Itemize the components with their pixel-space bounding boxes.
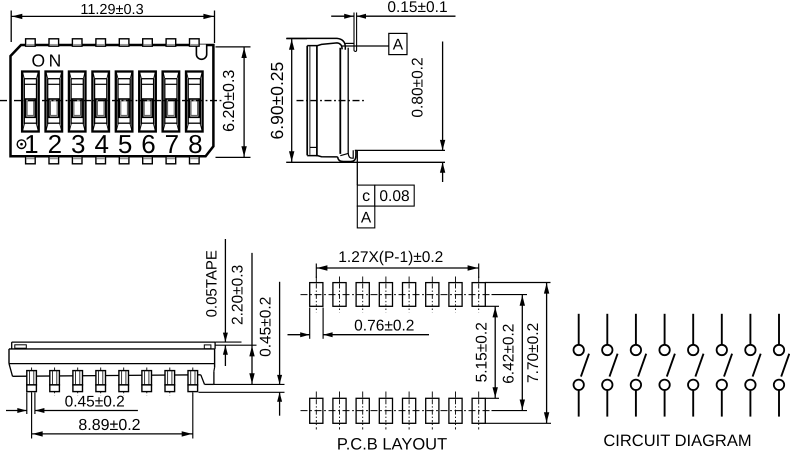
PCB pad top 2 bbox=[333, 277, 346, 313]
svg-text:0.08: 0.08 bbox=[379, 188, 409, 205]
svg-text:2.20±0.3: 2.20±0.3 bbox=[229, 265, 246, 325]
PCB pad top 7 bbox=[449, 277, 462, 313]
gull-wing lead 2 bbox=[50, 368, 60, 396]
terminal tab top 5 bbox=[119, 39, 129, 46]
gull-wing lead 6 bbox=[142, 368, 152, 396]
PCB pad bottom 4 bbox=[379, 392, 392, 430]
circuit switch S7 bbox=[745, 314, 761, 417]
svg-text:6: 6 bbox=[141, 129, 155, 159]
centerline (side view) bbox=[297, 100, 365, 102]
PCB pad bottom 7 bbox=[449, 392, 462, 430]
circuit switch S1 bbox=[574, 314, 590, 417]
dimension 0.45±0.2 (stand-off) bbox=[258, 282, 283, 416]
svg-text:2: 2 bbox=[48, 129, 62, 159]
switch slider 2 (top view) bbox=[46, 72, 63, 132]
lead seating lines bbox=[355, 149, 445, 151]
switch slider 7 (top view) bbox=[163, 72, 180, 132]
svg-text:5.15±0.2: 5.15±0.2 bbox=[473, 322, 490, 382]
dimension 7.70±0.2 bbox=[525, 283, 549, 424]
PCB row centerline top bbox=[301, 294, 492, 296]
PCB pad bottom 2 bbox=[333, 392, 346, 430]
gull-wing lead 3 bbox=[73, 368, 83, 396]
switch slider 4 (top view) bbox=[92, 72, 109, 132]
svg-text:CIRCUIT DIAGRAM: CIRCUIT DIAGRAM bbox=[603, 432, 751, 450]
thin tape tab (0.15) bbox=[354, 13, 357, 52]
svg-text:4: 4 bbox=[94, 129, 108, 159]
pin 1 indicator circle bbox=[17, 140, 26, 149]
circuit switch S4 bbox=[659, 314, 675, 417]
svg-text:A: A bbox=[361, 210, 372, 227]
terminal tab bottom 8 bbox=[190, 156, 200, 163]
PCB pad top 6 bbox=[426, 277, 439, 313]
metal clip bottom hook bbox=[338, 150, 356, 162]
terminal tab top 6 bbox=[143, 39, 153, 46]
polarity notch (top-right) bbox=[196, 45, 206, 60]
circuit switch S6 bbox=[717, 314, 733, 417]
svg-text:8: 8 bbox=[188, 129, 202, 159]
circuit switch S2 bbox=[602, 314, 618, 417]
terminal tab top 7 bbox=[166, 39, 176, 46]
svg-text:5: 5 bbox=[118, 129, 132, 159]
circuit switch S3 bbox=[631, 314, 647, 417]
PCB extension lines right bbox=[485, 283, 551, 424]
side view body bbox=[307, 43, 348, 157]
datum A flag bbox=[342, 33, 407, 54]
dimension 6.42±0.2 bbox=[500, 295, 525, 411]
dimension 0.15±0.1 bbox=[331, 0, 455, 19]
circuit switch S5 bbox=[688, 314, 704, 417]
PCB pad top 4 bbox=[379, 277, 392, 313]
terminal tab bottom 7 bbox=[166, 156, 176, 163]
metal clip top hook bbox=[286, 38, 354, 49]
svg-text:P.C.B LAYOUT: P.C.B LAYOUT bbox=[337, 436, 447, 454]
PCB row centerline bottom bbox=[301, 410, 492, 412]
switch slider 3 (top view) bbox=[69, 72, 86, 132]
gull-wing lead 5 bbox=[119, 368, 129, 396]
switch slider 5 (top view) bbox=[116, 72, 133, 132]
gull-wing lead 1 bbox=[27, 368, 37, 396]
gull-wing lead 4 bbox=[96, 368, 106, 396]
dimension 0.05 TAPE bbox=[203, 239, 228, 366]
svg-text:0.76±0.2: 0.76±0.2 bbox=[354, 318, 414, 335]
switch slider 1 (top view) bbox=[22, 72, 39, 132]
terminal tab top 2 bbox=[49, 39, 59, 46]
PCB pad bottom 3 bbox=[356, 392, 369, 430]
dimension 8.89±0.2 (lead span) bbox=[32, 393, 193, 439]
dimension 2.20±0.3 bbox=[229, 253, 254, 385]
dimension 6.20±0.3 bbox=[216, 47, 251, 157]
terminal tab bottom 4 bbox=[96, 156, 106, 163]
svg-text:7: 7 bbox=[165, 129, 179, 159]
dimension 0.80±0.2 bbox=[409, 42, 445, 183]
terminal tab bottom 1 bbox=[26, 156, 36, 163]
dimension 0.45±0.2 (lead width) bbox=[6, 393, 138, 415]
dimension 5.15±0.2 bbox=[473, 306, 498, 398]
extension lines (front view right) bbox=[199, 342, 285, 392]
PCB pad top 3 bbox=[356, 277, 369, 313]
svg-text:8.89±0.2: 8.89±0.2 bbox=[78, 417, 140, 434]
dimension 0.76±0.2 bbox=[288, 308, 430, 339]
terminal tab top 8 bbox=[190, 39, 200, 46]
PCB pad top 8 bbox=[472, 277, 485, 313]
svg-text:7.70±0.2: 7.70±0.2 bbox=[525, 323, 542, 383]
svg-text:0.80±0.2: 0.80±0.2 bbox=[409, 57, 426, 117]
svg-text:3: 3 bbox=[71, 129, 85, 159]
terminal tab bottom 5 bbox=[119, 156, 129, 163]
terminal tab top 4 bbox=[96, 39, 106, 46]
terminal tab bottom 3 bbox=[72, 156, 82, 163]
PCB pad top 5 bbox=[403, 277, 416, 313]
svg-text:6.42±0.2: 6.42±0.2 bbox=[500, 324, 517, 384]
svg-text:c: c bbox=[362, 188, 370, 205]
front view body bbox=[9, 342, 215, 384]
PCB pad bottom 1 bbox=[310, 392, 323, 430]
PCB pad bottom 8 bbox=[472, 392, 485, 430]
centerline (top view) bbox=[0, 100, 224, 102]
terminal tab top 3 bbox=[72, 39, 82, 46]
svg-text:1.27X(P-1)±0.2: 1.27X(P-1)±0.2 bbox=[338, 249, 443, 266]
svg-text:0.15±0.1: 0.15±0.1 bbox=[387, 0, 447, 16]
terminal tab bottom 2 bbox=[49, 156, 59, 163]
svg-text:11.29±0.3: 11.29±0.3 bbox=[80, 2, 143, 18]
svg-text:0.45±0.2: 0.45±0.2 bbox=[258, 297, 275, 357]
PCB pad bottom 5 bbox=[403, 392, 416, 430]
dimension 6.90±0.25 bbox=[267, 39, 445, 163]
terminal tab bottom 6 bbox=[143, 156, 153, 163]
svg-text:0.45±0.2: 0.45±0.2 bbox=[65, 394, 125, 411]
svg-text:0.05TAPE: 0.05TAPE bbox=[203, 250, 220, 317]
gull-wing lead 8 bbox=[188, 368, 198, 396]
svg-text:ON: ON bbox=[32, 51, 65, 71]
dimension 11.29±0.3 bbox=[11, 2, 214, 43]
svg-text:6.90±0.25: 6.90±0.25 bbox=[267, 62, 287, 140]
PCB pad top 1 bbox=[310, 277, 323, 313]
svg-text:6.20±0.3: 6.20±0.3 bbox=[221, 70, 238, 132]
circuit switch S8 bbox=[774, 314, 790, 417]
feature control frame c 0.08 / datum A bbox=[357, 151, 414, 228]
gull-wing lead 7 bbox=[165, 368, 175, 396]
dimension 1.27X(P-1)±0.2 bbox=[316, 249, 478, 278]
switch slider 6 (top view) bbox=[139, 72, 156, 132]
PCB pad bottom 6 bbox=[426, 392, 439, 430]
switch slider 8 (top view) bbox=[186, 72, 203, 132]
svg-text:A: A bbox=[393, 37, 404, 54]
terminal tab top 1 bbox=[26, 39, 36, 46]
DIP switch body (top view) bbox=[11, 45, 214, 156]
